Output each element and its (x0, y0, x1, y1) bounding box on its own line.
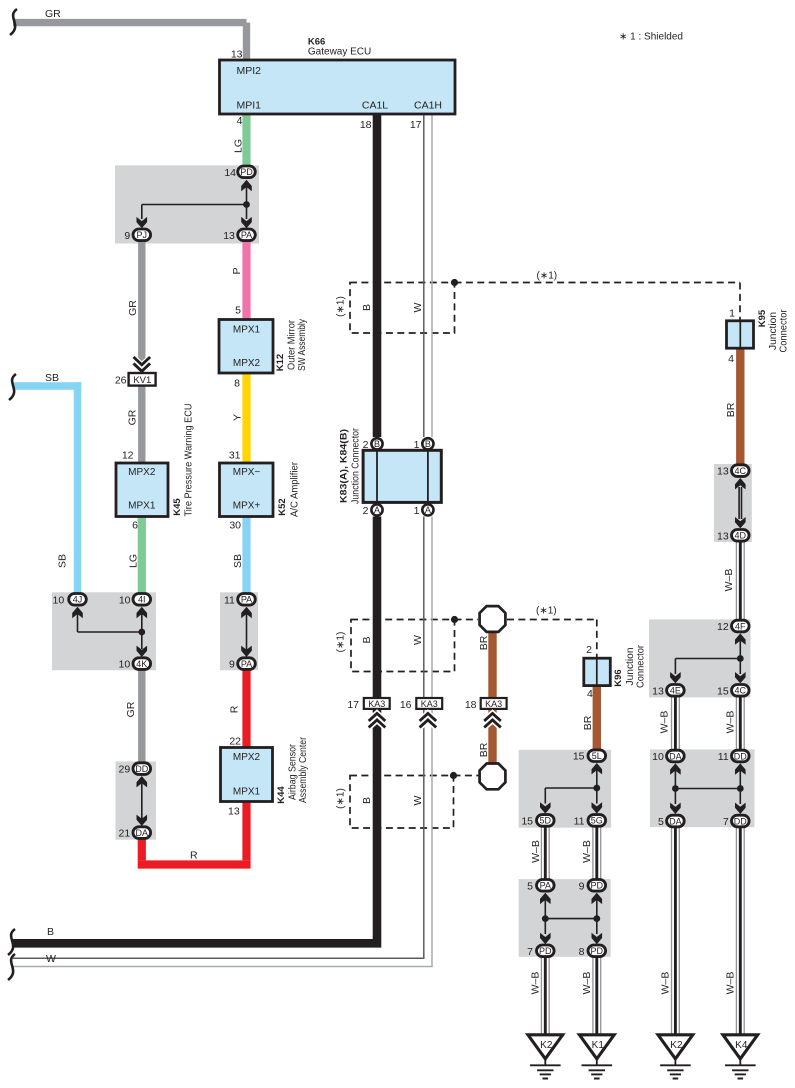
label B box2 (361, 636, 373, 643)
pin 8 of K12 (234, 378, 240, 390)
svg-text:10: 10 (53, 594, 65, 606)
svg-text:MPX+: MPX+ (233, 501, 261, 512)
label MPX2 of K44 (233, 752, 261, 763)
arrow down into 4D (735, 517, 746, 528)
label MPX+ of K52 (233, 501, 261, 512)
double chevron into KV1 (134, 357, 151, 371)
outer mirror SW assembly K12 box (219, 320, 273, 374)
wire GR from left edge to K66 pin 13 (13, 23, 247, 60)
pin 5 label DA (658, 816, 664, 828)
pin circle A left (371, 504, 382, 515)
pin 15 label 4C (717, 685, 729, 697)
svg-text:MPI2: MPI2 (237, 65, 262, 77)
junction dot PD (593, 915, 600, 922)
label (*1) near K96 (536, 606, 557, 617)
wire W-B 11-5G to 9PD (593, 826, 601, 885)
label (*1) near K95 (537, 271, 558, 282)
wire through K96 (596, 658, 598, 685)
tire pressure warning ECU K45 box (116, 463, 168, 517)
svg-text:13: 13 (717, 466, 729, 478)
svg-text:R: R (229, 705, 241, 713)
label (*1) box2 (336, 632, 347, 653)
arrow down into 7DD (735, 789, 746, 815)
svg-text:A: A (425, 505, 431, 515)
svg-text:2: 2 (363, 505, 369, 517)
svg-text:MPI1: MPI1 (237, 100, 262, 112)
svg-text:LG: LG (233, 139, 245, 153)
ground K2 right (658, 1035, 693, 1079)
label Junction K95 (768, 312, 779, 350)
wire label W-B 5 (581, 840, 593, 863)
pin oval 15 5D (537, 815, 555, 827)
wire label LG (233, 139, 245, 153)
junction dot DD (737, 785, 744, 792)
pin 2 label B (363, 439, 369, 451)
pin oval 10 4I (133, 594, 151, 606)
svg-text:5G: 5G (591, 816, 603, 826)
break symbol on GR wire (10, 9, 17, 35)
pin 9 label (124, 230, 130, 242)
junction connector K95 box (727, 321, 754, 348)
label (*1) box1 (336, 296, 347, 317)
pin 13 label (223, 230, 235, 242)
svg-text:21: 21 (119, 828, 131, 840)
pin oval 11 PA (238, 594, 256, 606)
svg-text:DD: DD (734, 751, 747, 761)
arrow down into 4K (137, 632, 148, 657)
svg-text:W–B: W–B (659, 711, 671, 734)
svg-text:W–B: W–B (660, 972, 672, 995)
branch wire 4J to 4K (78, 631, 142, 633)
wire W-B 15-5D to 5PA (541, 826, 549, 885)
junction connector 18 KA3 (481, 698, 507, 709)
svg-text:MPX−: MPX− (233, 467, 261, 478)
pin oval 12 4F (732, 620, 750, 632)
label K96 (613, 669, 624, 686)
svg-text:11: 11 (224, 594, 235, 606)
pin 17 label KA3 (347, 699, 359, 711)
arrow up into 4C (735, 478, 746, 489)
svg-text:W: W (412, 795, 424, 805)
shield ground octagon 1 (480, 606, 506, 632)
ground K4 (723, 1035, 758, 1079)
label MPI2 (237, 65, 262, 77)
connector shade box (14PD/9PJ/13PA) (115, 165, 259, 243)
pin 5 of K12 (235, 305, 241, 317)
connector shade box (10-4J/10-4I/10-4K) (52, 592, 156, 670)
arrow down into 5D (540, 802, 551, 813)
junction dot 4F branch (737, 655, 744, 662)
label Tire Pressure Warning ECU (184, 404, 195, 517)
svg-text:Outer Mirror: Outer Mirror (287, 319, 298, 370)
svg-text:SB: SB (45, 372, 59, 384)
junction dot in connector B (138, 629, 145, 636)
pin oval 10 DA (667, 750, 685, 762)
wire W-B 13-4E to 10DA (672, 696, 680, 756)
label Assembly Center (298, 736, 309, 803)
svg-text:B: B (374, 439, 380, 449)
wire BR 18KA3 to shield ground 2 (488, 710, 496, 763)
pin 4 of K66 (237, 115, 243, 127)
label Gateway ECU (308, 46, 371, 57)
branch wire to 9PJ (142, 205, 247, 220)
pin 4 of K95 (728, 353, 734, 365)
arrow up into DA (670, 763, 681, 788)
label B box3 (361, 797, 373, 804)
pin oval 9 PD (588, 880, 606, 892)
svg-text:6: 6 (132, 520, 138, 532)
wire W-B 13-4D to 12-4F (736, 542, 744, 620)
pin 15 label 5D (521, 815, 533, 827)
shield junction dot 1 (451, 279, 458, 286)
svg-text:15: 15 (717, 685, 729, 697)
svg-text:18: 18 (465, 699, 477, 711)
pin oval 15 4C (732, 685, 750, 697)
branch wire to 13PA (246, 205, 248, 220)
label MPX1 of K44 (233, 786, 261, 797)
pin 31 of K52 (229, 450, 241, 462)
svg-text:4: 4 (587, 688, 593, 700)
svg-text:10: 10 (119, 594, 131, 606)
wire label BR 4 (582, 715, 594, 730)
svg-text:4D: 4D (735, 531, 747, 541)
svg-text:W–B: W–B (725, 972, 737, 995)
svg-text:15: 15 (521, 815, 533, 827)
svg-text:5: 5 (527, 880, 533, 892)
svg-text:KA3: KA3 (485, 699, 502, 709)
svg-text:K1: K1 (592, 1040, 605, 1051)
label K83(A), K84(B) (338, 429, 349, 503)
double arrow between PA pins (241, 607, 252, 657)
svg-text:7: 7 (527, 946, 533, 958)
svg-text:B: B (361, 304, 373, 311)
svg-text:K12: K12 (275, 354, 286, 371)
wire GR 10-4K to 29DD (138, 663, 145, 769)
branch wire to 5G (596, 788, 598, 804)
pin oval 13 4E (667, 685, 685, 697)
arrow down into 5G (592, 802, 603, 813)
svg-text:Tire Pressure Warning ECU: Tire Pressure Warning ECU (184, 404, 195, 517)
svg-text:W–B: W–B (723, 569, 735, 592)
svg-text:13: 13 (223, 230, 235, 242)
svg-text:(∗1): (∗1) (537, 271, 558, 282)
svg-text:GR: GR (125, 701, 137, 717)
label (*1) box3 (336, 788, 347, 809)
wire SB K52 pin 30 to 11PA (242, 517, 250, 601)
svg-text:15: 15 (573, 751, 585, 763)
pin 13 of K44 (228, 806, 240, 818)
arrow up into PD (241, 180, 252, 205)
svg-text:BR: BR (582, 715, 594, 730)
wire B CA1L pin 18 down to junction connector (373, 114, 382, 437)
wire label P (231, 267, 243, 274)
arrow down into PA (241, 217, 252, 228)
svg-text:5L: 5L (592, 751, 602, 761)
svg-text:W–B: W–B (530, 840, 542, 863)
svg-text:K83(A), K84(B): K83(A), K84(B) (338, 429, 349, 503)
svg-text:CA1H: CA1H (414, 100, 442, 112)
pin oval 9 PA (238, 658, 256, 670)
wire through K95 (739, 321, 741, 348)
svg-text:DA: DA (669, 751, 682, 761)
arrow down into PJ (137, 217, 148, 228)
label SW Assembly (297, 319, 308, 371)
svg-text:K2: K2 (540, 1040, 553, 1051)
pin circle B right (422, 438, 433, 449)
wire label GR 4 (125, 701, 137, 717)
wire W chevron to bottom left edge (13, 710, 432, 967)
svg-text:PA: PA (241, 230, 252, 240)
svg-text:Assembly Center: Assembly Center (298, 736, 309, 803)
wire P 13PA to K12 pin 5 (242, 235, 250, 320)
pin oval 5 PA (537, 880, 555, 892)
wire W junction connector to 16KA3 chevron (424, 517, 432, 704)
svg-text:DA: DA (669, 816, 682, 826)
break symbol on B wire (8, 929, 15, 955)
junction dot 5L branch (593, 785, 600, 792)
wire W-B 15-4C to 11DD (736, 696, 744, 756)
svg-text:Airbag Sensor: Airbag Sensor (288, 743, 299, 800)
svg-text:4C: 4C (735, 466, 747, 476)
label Connector K96 (635, 644, 646, 688)
svg-text:GR: GR (45, 8, 61, 20)
junction connector KV1 (129, 373, 156, 386)
svg-text:17: 17 (347, 699, 359, 711)
wire label SB (232, 554, 244, 568)
svg-text:9: 9 (579, 880, 585, 892)
pin 11 label 5G (574, 815, 585, 827)
double arrow between DD and DA (137, 776, 148, 826)
svg-text:GR: GR (127, 300, 139, 316)
note shielded (619, 31, 683, 42)
pin 2 label A (363, 505, 369, 517)
pin 1 of K95 (729, 308, 735, 320)
label Airbag Sensor (288, 743, 299, 800)
svg-text:K52: K52 (277, 498, 288, 515)
label W box1 (412, 302, 424, 312)
branch wire DA to DD (675, 788, 740, 790)
svg-text:Gateway ECU: Gateway ECU (308, 46, 371, 57)
svg-text:(∗1): (∗1) (336, 296, 347, 317)
shield dashed link to shield ground and K96 (455, 620, 597, 659)
svg-text:BR: BR (478, 742, 490, 757)
svg-text:Junction: Junction (625, 648, 636, 686)
svg-text:8: 8 (579, 946, 585, 958)
svg-text:11: 11 (718, 751, 729, 763)
svg-text:PD: PD (539, 946, 552, 956)
junction dot PA (542, 915, 549, 922)
pin 11 label DD (718, 751, 729, 763)
pin 7 label PD (527, 946, 533, 958)
svg-text:K95: K95 (757, 309, 768, 327)
svg-text:29: 29 (119, 764, 131, 776)
label MPX1 of K45 (128, 501, 156, 512)
wire label B bottom (47, 926, 54, 938)
svg-text:14: 14 (224, 167, 236, 179)
wire label SB 2 (45, 372, 59, 384)
wire BR K96 pin 4 to 15-5L (593, 686, 601, 756)
wire label R lower (190, 850, 198, 862)
shield dashed box 2 around B/W (351, 620, 455, 672)
wire through K83 left (376, 450, 378, 502)
pin oval 13 PA (238, 229, 256, 241)
svg-text:K45: K45 (172, 498, 183, 516)
wire W-B 7DD to ground K4 (736, 827, 744, 1035)
pin 10 label 4J (53, 594, 65, 606)
break symbol on W wire (8, 954, 15, 980)
label MPX1 of K12 (233, 325, 261, 336)
wire W-B 8PD to ground K1 (593, 956, 601, 1035)
branch wire to 4E (675, 659, 740, 675)
wire label W bottom (46, 953, 56, 965)
wire BR K95 pin 4 to 13-4C (736, 348, 744, 470)
svg-text:BR: BR (478, 635, 490, 650)
pin oval 8 PD (588, 945, 606, 957)
svg-text:13: 13 (717, 530, 729, 542)
pin 9 label PA (229, 659, 235, 671)
svg-text:DD: DD (135, 764, 148, 774)
label A/C Amplifier (290, 461, 301, 517)
svg-text:PA: PA (241, 595, 252, 605)
svg-text:W: W (412, 302, 424, 312)
wire label SB 3 (57, 554, 69, 568)
pin 17 of K66 (410, 119, 422, 131)
svg-text:12: 12 (122, 450, 134, 462)
ground K1 (579, 1035, 614, 1079)
double chevron below 16KA3 (420, 713, 437, 727)
connector shade box (13-4C/13-4D) (714, 464, 752, 542)
pin 10 label 4K (119, 659, 131, 671)
svg-text:(∗1): (∗1) (536, 606, 557, 617)
pin 12 label 4F (717, 621, 729, 633)
svg-text:4K: 4K (136, 659, 147, 669)
arrow up into 4J (72, 607, 83, 632)
svg-text:4: 4 (237, 115, 243, 127)
junction connector K96 box (584, 658, 611, 685)
wire LG K45 pin 6 to 10-4I (138, 517, 146, 601)
svg-text:W–B: W–B (530, 972, 542, 995)
svg-text:(∗1): (∗1) (336, 788, 347, 809)
label MPI1 (237, 100, 262, 112)
wire LG K66 pin 4 to 14PD (242, 114, 250, 171)
svg-text:B: B (361, 797, 373, 804)
svg-text:4: 4 (728, 353, 734, 365)
arrow up into 4I (137, 607, 148, 632)
pin 1 label B (414, 439, 420, 451)
pin oval 11 5G (588, 815, 606, 827)
svg-text:K4: K4 (735, 1040, 748, 1051)
svg-text:SW Assembly: SW Assembly (297, 319, 308, 371)
svg-text:1: 1 (414, 505, 420, 517)
svg-text:KV1: KV1 (133, 375, 151, 386)
svg-text:26: 26 (115, 375, 127, 387)
junction connector 16 KA3 (416, 698, 442, 709)
pin 12 of K45 (122, 450, 134, 462)
pin 15 label 5L (573, 751, 585, 763)
connector shade box (11PA/9PA) (220, 592, 258, 670)
svg-text:BR: BR (725, 402, 737, 417)
wire label W-B 8 (660, 972, 672, 995)
label CA1L (362, 100, 388, 112)
wire label BR 1 (725, 402, 737, 417)
pin 13 label 4D (717, 530, 729, 542)
wire label W-B 4 (530, 840, 542, 863)
branch wire PA to PD (545, 918, 597, 920)
wire label W-B 6 (530, 972, 542, 995)
wire B junction connector to 17KA3 chevron (373, 517, 382, 704)
wire label R upper (229, 705, 241, 713)
pin 14 label (224, 167, 236, 179)
svg-text:(∗1): (∗1) (336, 632, 347, 653)
svg-text:5: 5 (658, 816, 664, 828)
svg-text:∗ 1 : Shielded: ∗ 1 : Shielded (619, 31, 683, 42)
svg-text:13: 13 (228, 806, 240, 818)
svg-text:4C: 4C (735, 686, 747, 696)
svg-text:K96: K96 (613, 669, 624, 686)
svg-text:13: 13 (231, 49, 243, 61)
branch wire to 4C-15 (739, 659, 741, 675)
shield dashed link to shield ground 2 (454, 775, 479, 777)
break symbol on SB wire (9, 374, 16, 400)
pin 13 label 4C (717, 466, 729, 478)
wire GR KV1 to K45 pin 12 (138, 387, 145, 464)
pin 1 label A (414, 505, 420, 517)
label CA1H (414, 100, 442, 112)
connector shade box (29DD/21DA) (116, 761, 157, 839)
junction connector K83(A) K84(B) box (363, 450, 441, 502)
wire through K83 right (427, 450, 429, 502)
wire label W-B 1 (723, 569, 735, 592)
pin 9 label PD (579, 880, 585, 892)
gateway ECU K66 box (220, 60, 456, 114)
svg-text:B: B (425, 439, 431, 449)
svg-text:9: 9 (124, 230, 130, 242)
arrow down into 8PD (592, 919, 603, 945)
svg-text:11: 11 (574, 815, 585, 827)
pin 13 of K66 (231, 49, 243, 61)
svg-text:2: 2 (363, 439, 369, 451)
pin 13 label 4E (652, 685, 664, 697)
pin 5 label PA (527, 880, 533, 892)
svg-text:P: P (231, 267, 243, 274)
label W box3 (412, 795, 424, 805)
svg-text:SB: SB (232, 554, 244, 568)
wire W-B 5DA to ground K2 right (672, 827, 680, 1035)
arrow up into PD bottom (592, 893, 603, 919)
svg-text:PJ: PJ (137, 230, 148, 240)
wire label Y (232, 414, 244, 421)
pin 21 label (119, 828, 131, 840)
label K66 (308, 37, 325, 48)
svg-text:16: 16 (400, 699, 412, 711)
wire label LG 2 (128, 554, 140, 568)
svg-text:5: 5 (235, 305, 241, 317)
svg-text:Y: Y (232, 414, 244, 421)
svg-text:12: 12 (717, 621, 729, 633)
svg-text:PA: PA (241, 659, 252, 669)
svg-text:1: 1 (729, 308, 735, 320)
svg-text:5D: 5D (540, 816, 552, 826)
label MPX2 of K12 (233, 358, 261, 369)
svg-text:10: 10 (119, 659, 131, 671)
svg-text:Junction: Junction (768, 312, 779, 350)
arrow down into 4E (670, 672, 681, 683)
A/C amplifier K52 box (220, 463, 274, 517)
svg-text:Junction Connector: Junction Connector (351, 427, 362, 504)
svg-text:1: 1 (414, 439, 420, 451)
svg-text:PD: PD (240, 167, 253, 177)
pin 4 of K96 (587, 688, 593, 700)
